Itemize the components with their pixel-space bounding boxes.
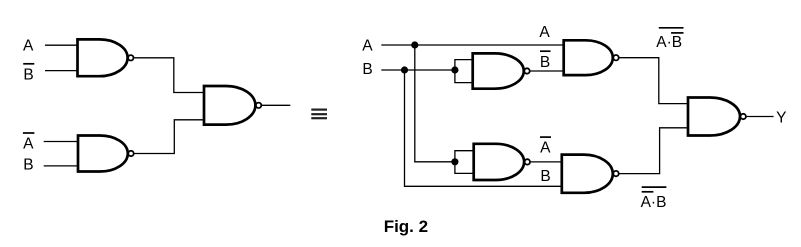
node inverter U2 input junction bbox=[451, 158, 458, 165]
svg-text:A·B: A·B bbox=[641, 194, 667, 211]
node B junction bbox=[401, 66, 408, 73]
label A-bar (U2 output) bbox=[540, 136, 551, 138]
svg-text:A·B: A·B bbox=[656, 34, 682, 51]
svg-text:Fig. 2: Fig. 2 bbox=[384, 217, 428, 236]
wire G1 output to G3 upper input bbox=[134, 58, 204, 93]
label out2 A-bar.B with overlines bbox=[641, 187, 667, 211]
wire U1 input bracket bbox=[455, 60, 473, 83]
wire A input line bbox=[381, 44, 564, 46]
node A junction bbox=[411, 41, 418, 48]
nand gate G3 (left middle) bbox=[204, 86, 255, 125]
wire B input line bbox=[381, 69, 455, 71]
svg-text:A: A bbox=[540, 139, 551, 156]
wire B to G2 bbox=[44, 165, 79, 167]
wire G3 output bbox=[262, 104, 290, 106]
svg-text:B: B bbox=[540, 168, 550, 185]
svg-text:B: B bbox=[23, 157, 33, 174]
wire A to G1 bbox=[45, 44, 78, 46]
svg-text:A: A bbox=[23, 37, 34, 54]
nand gate G2 (left bottom) bbox=[78, 136, 128, 172]
wire B branch down and along bottom bbox=[405, 70, 562, 186]
nand gate G4 (upper right) bbox=[564, 40, 613, 75]
nand gate G5 (lower right) bbox=[562, 155, 613, 193]
svg-text:B: B bbox=[23, 67, 33, 84]
label A-bar (left circuit, gate2 upper input) bbox=[23, 132, 35, 134]
nand inverter U1 (B invert) bbox=[473, 53, 524, 88]
nand gate G6 (final) bbox=[688, 98, 740, 136]
wire U2 output to G5 bbox=[531, 161, 562, 163]
nand inverter U2 (A invert) bbox=[474, 144, 524, 180]
svg-text:Y: Y bbox=[776, 110, 786, 127]
wire G6 output bbox=[747, 116, 774, 118]
node inverter U1 input junction bbox=[451, 66, 458, 73]
wire B-bar to G1 bbox=[45, 70, 78, 72]
label out1 A.B-bar with overlines bbox=[656, 28, 683, 51]
equivalence symbol bbox=[311, 110, 327, 119]
svg-text:B: B bbox=[540, 54, 550, 71]
wire G4 output to G6 upper input bbox=[619, 58, 688, 104]
nand gate G1 (left top) bbox=[78, 39, 128, 76]
label B-bar (U1 output) bbox=[540, 50, 551, 52]
svg-text:A: A bbox=[362, 37, 373, 54]
svg-text:A: A bbox=[539, 24, 550, 41]
wire A-bar to G2 bbox=[44, 141, 79, 143]
wire U2 input bracket bbox=[455, 151, 474, 174]
svg-text:B: B bbox=[362, 61, 372, 78]
wire A branch down to inverter U2 bbox=[415, 45, 455, 162]
label B-bar (left circuit, gate1 lower input) bbox=[23, 63, 34, 65]
wire U1 output to G4 bbox=[530, 70, 564, 72]
svg-text:A: A bbox=[23, 135, 34, 152]
wire G5 output to G6 lower input bbox=[619, 128, 688, 174]
wire G2 output to G3 lower input bbox=[134, 120, 204, 154]
